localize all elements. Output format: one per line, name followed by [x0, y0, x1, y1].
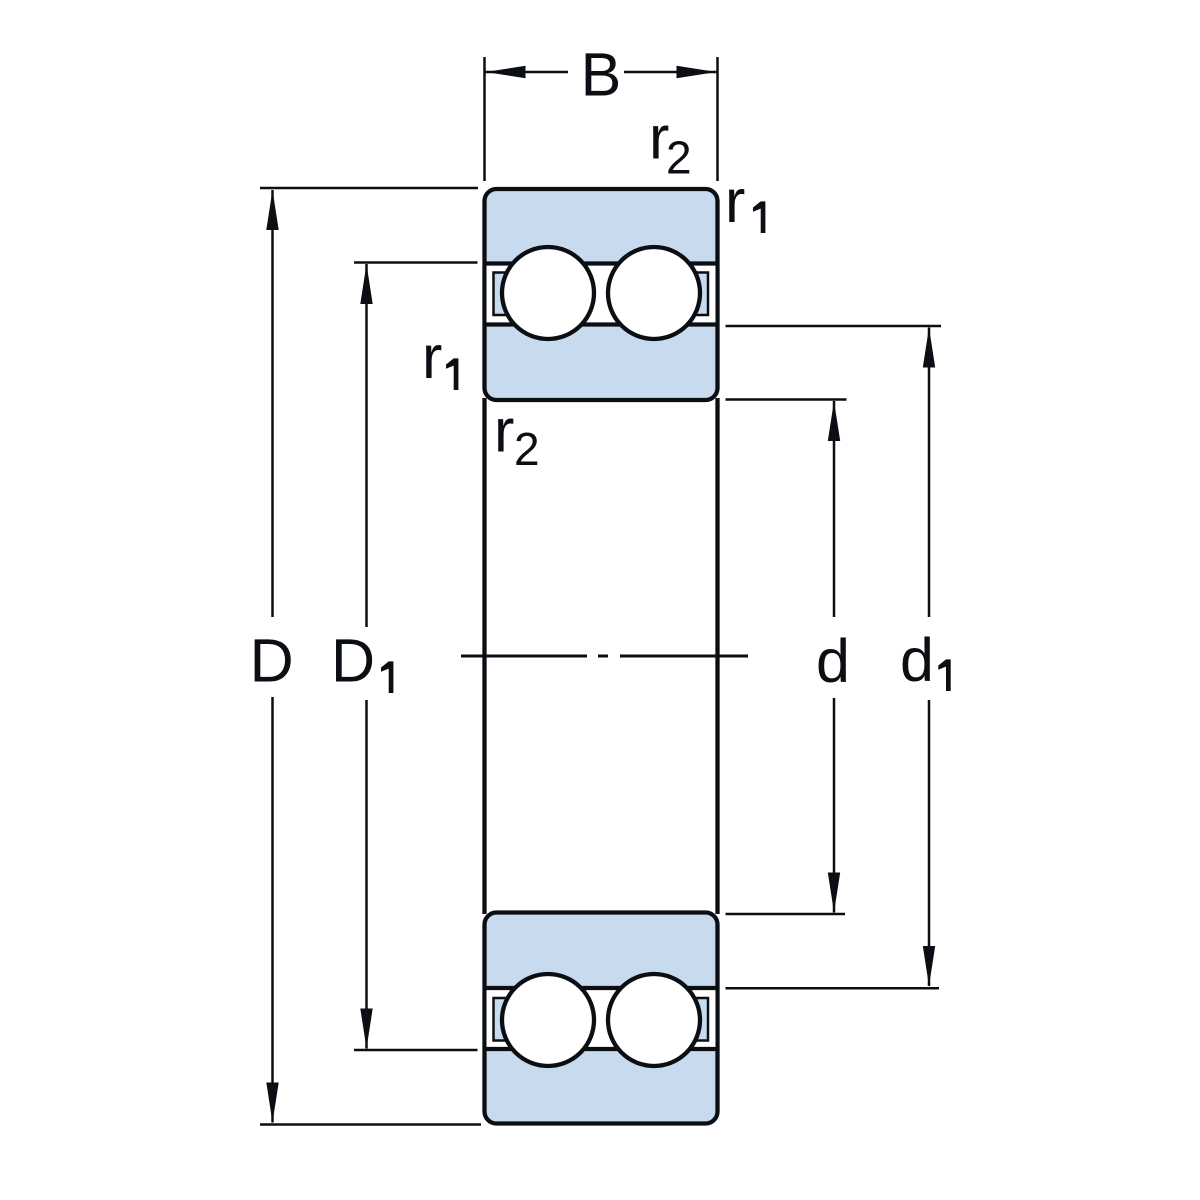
- ring block (inner+outer ring cross-section): [485, 913, 718, 1124]
- dimension B: [486, 41, 717, 109]
- svg-text:d: d: [816, 627, 850, 695]
- svg-text:D: D: [250, 627, 294, 695]
- dimension D: [250, 190, 294, 1123]
- svg-text:B: B: [581, 41, 622, 109]
- cage left: [494, 273, 546, 316]
- raceway band (white): [487, 264, 716, 325]
- bore silhouette line left: [482, 398, 486, 914]
- svg-text:r: r: [725, 167, 745, 235]
- label r2 (top, above outer ring corner): [649, 104, 692, 184]
- dimension D extension lines: [260, 188, 481, 1125]
- top bearing section: [485, 189, 718, 400]
- svg-text:d: d: [900, 626, 934, 694]
- dimension d1: [900, 328, 951, 987]
- dimension d1 extension lines: [726, 326, 942, 988]
- dimension d extension lines: [726, 400, 847, 915]
- svg-text:r: r: [494, 397, 514, 465]
- bore silhouette line right: [715, 398, 719, 914]
- raceway band (white): [487, 988, 716, 1049]
- dimension D1: [331, 264, 393, 1049]
- ball right: [608, 974, 700, 1066]
- svg-text:D: D: [331, 627, 375, 695]
- dimension d: [816, 401, 850, 913]
- cage right: [656, 998, 708, 1041]
- label r1 (left, inner ring corner): [422, 323, 458, 391]
- dimension D1 extension lines: [354, 263, 478, 1051]
- dimension B extension lines: [485, 57, 718, 181]
- label r1 (top right, outer ring corner): [725, 167, 765, 235]
- ball right: [608, 247, 700, 339]
- center line (bearing axis, dash-dot): [461, 655, 748, 658]
- cage left: [494, 998, 546, 1041]
- ball left: [502, 247, 594, 339]
- svg-text:2: 2: [514, 423, 540, 475]
- ball left: [502, 974, 594, 1066]
- ring block (outer+inner ring cross-section): [485, 189, 718, 400]
- bottom bearing section: [485, 913, 718, 1124]
- cage right: [656, 273, 708, 316]
- svg-text:r: r: [422, 323, 442, 391]
- label r2 (below inner ring corner): [494, 397, 540, 476]
- svg-text:2: 2: [666, 132, 692, 184]
